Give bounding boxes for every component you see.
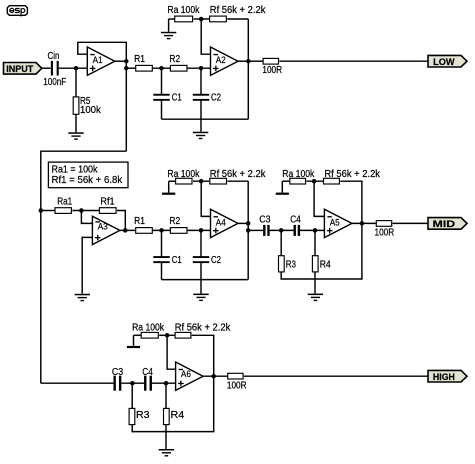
svg-text:Ra1 = 100k: Ra1 = 100k [52, 164, 99, 175]
ESP logo [7, 6, 27, 17]
svg-text:C2: C2 [211, 255, 221, 266]
ground Ra high [127, 346, 140, 348]
node C4 junction mid [313, 228, 318, 233]
wire A1 tap to row2 [41, 151, 127, 383]
wire A4 minus [201, 181, 210, 216]
resistor Rf mid [210, 178, 227, 184]
wire to MID tag [393, 222, 429, 224]
wire A6 output [203, 375, 227, 377]
resistor R2 mid [170, 228, 187, 234]
wire Ra-Rf mid [193, 180, 209, 182]
wire R4 top mid [314, 230, 316, 255]
wire A2 output [238, 60, 248, 62]
wire C2 top mid [200, 230, 202, 256]
ground C2 [193, 132, 208, 134]
wire Ra high left [134, 334, 141, 336]
wire C4 to A6 [152, 382, 176, 384]
note box [48, 162, 128, 188]
svg-text:R1: R1 [134, 54, 145, 65]
wire A3 output [120, 229, 135, 231]
wire A3 plus [82, 237, 92, 293]
capacitor Cin [51, 61, 53, 76]
op-amp A4 [211, 209, 239, 237]
svg-text:R1: R1 [134, 216, 145, 227]
node Ra-Rf mid [199, 179, 204, 184]
op-amp A2 [211, 47, 239, 75]
node A4 out [246, 221, 251, 226]
resistor R4 high [164, 408, 170, 424]
wire C3-C4 high [121, 382, 144, 384]
wire feedback vertical mid [247, 181, 249, 279]
capacitor C2 [193, 94, 209, 96]
capacitor C2 mid [193, 256, 209, 258]
svg-text:A6: A6 [181, 369, 191, 380]
resistor 100R high [228, 373, 243, 379]
wire C1 top mid [161, 230, 163, 256]
wire R3 rail mid [281, 223, 362, 279]
wire C2 to ground [200, 100, 202, 131]
wire Ra to Rf [194, 18, 210, 20]
wire Ra2 ground [281, 181, 283, 192]
node A4 tap [246, 228, 251, 233]
ground Ra mid [162, 193, 175, 195]
resistor 100R mid [376, 221, 391, 227]
node C2 tap mid [199, 228, 204, 233]
node input junction [74, 66, 79, 71]
wire Rf2 right [340, 181, 362, 223]
wire Rf1 to A3 out [117, 211, 125, 231]
wire Ra1 to Rf1 [72, 210, 99, 212]
wire A4 output [238, 222, 248, 224]
resistor Ra high [141, 332, 158, 338]
svg-text:100R: 100R [375, 227, 395, 238]
svg-text:R2: R2 [169, 54, 180, 65]
wire A1 output [115, 60, 127, 62]
node A6 out [211, 374, 216, 379]
wire C2 ground mid [200, 263, 202, 294]
resistor R5 [73, 97, 79, 114]
wire A1 out down [125, 61, 127, 151]
HIGH tag [428, 370, 467, 382]
ground R5 [68, 132, 83, 134]
svg-text:HIGH: HIGH [433, 372, 455, 383]
wire A4 out to C3 [248, 229, 263, 231]
wire A2 minus input [201, 19, 210, 54]
wire C4 to A5 [300, 229, 325, 231]
wire R2 to A4 [187, 229, 210, 231]
wire C3-C4 mid [270, 229, 294, 231]
svg-text:Ra1: Ra1 [57, 197, 72, 208]
capacitor C1 mid [153, 256, 169, 258]
node C1 tap [159, 66, 164, 71]
wire A1 feedback [78, 42, 127, 61]
svg-text:A5: A5 [330, 217, 340, 228]
wire Ra2-Rf2 [307, 180, 324, 182]
capacitor C4 mid [294, 225, 296, 236]
svg-text:100R: 100R [262, 65, 282, 76]
node C3 junction high [130, 381, 135, 386]
wire R1-R2 mid [153, 229, 170, 231]
resistor Ra2 mid [290, 178, 306, 184]
svg-text:Ra 100k: Ra 100k [167, 169, 200, 180]
node C3 junction mid [279, 228, 284, 233]
wire C2 top [200, 68, 202, 94]
node A1 out [124, 59, 129, 64]
wire R3 rail high [132, 376, 214, 431]
svg-text:Rf 56k + 2.2k: Rf 56k + 2.2k [324, 169, 381, 180]
svg-text:LOW: LOW [433, 57, 455, 68]
node A5 out [360, 221, 365, 226]
node Ra-Rf junction [199, 17, 204, 22]
svg-text:Ra 100k: Ra 100k [167, 5, 200, 16]
svg-text:R3: R3 [286, 260, 297, 271]
wire Rf right high [192, 335, 214, 376]
resistor R3 high [129, 408, 135, 424]
wire R3 top mid [280, 230, 282, 255]
node A1 tap [124, 66, 129, 71]
resistor Ra mid [176, 178, 192, 184]
svg-text:Ra 100k: Ra 100k [282, 169, 315, 180]
svg-text:C1: C1 [172, 93, 182, 104]
wire out to 100R [248, 60, 262, 62]
svg-text:R3: R3 [136, 410, 150, 421]
wire to Ra1 [41, 210, 55, 212]
node Ra-Rf high [165, 333, 170, 338]
svg-text:C4: C4 [142, 367, 153, 378]
wire input to Cin [42, 67, 51, 69]
wire R4 ground mid [314, 272, 316, 294]
resistor 100R low [263, 58, 278, 64]
wire A5 minus [314, 181, 324, 216]
capacitor C3 high [113, 376, 115, 391]
wire Ra2 left [282, 180, 289, 182]
node A2 out [246, 59, 251, 64]
wire R2 to A2 [187, 67, 210, 69]
ground Ra [161, 32, 176, 34]
node Ra2-Rf2 [312, 179, 317, 184]
LOW tag [428, 55, 467, 67]
svg-text:Rf1 = 56k + 6.8k: Rf1 = 56k + 6.8k [52, 175, 124, 186]
svg-text:R4: R4 [171, 410, 185, 421]
svg-text:C2: C2 [211, 93, 221, 104]
node row2 input [39, 208, 44, 213]
ground Ra2 mid [276, 193, 289, 195]
svg-text:100nF: 100nF [43, 77, 66, 88]
svg-text:C3: C3 [112, 367, 124, 378]
resistor Rf [210, 16, 227, 22]
resistor Rf high [175, 332, 191, 338]
svg-text:Rf 56k + 2.2k: Rf 56k + 2.2k [175, 323, 232, 334]
wire feedback vertical [247, 19, 249, 119]
wire R5 bottom [75, 114, 77, 132]
wire to HIGH tag [244, 375, 428, 377]
wire Ra mid left [169, 180, 176, 182]
wire A5 output [352, 222, 376, 224]
capacitor C1 [153, 94, 169, 96]
wire Ra-Rf high [159, 334, 175, 336]
svg-text:R2: R2 [169, 216, 180, 227]
capacitor C4 high [144, 376, 146, 391]
wire R1 to R2 [153, 67, 170, 69]
svg-text:100k: 100k [80, 105, 102, 116]
svg-text:Rf 56k + 2.2k: Rf 56k + 2.2k [210, 169, 267, 180]
wire row3 input [41, 382, 114, 384]
ground R4 high [159, 449, 174, 451]
resistor R1 mid [136, 228, 153, 234]
wire C1 rail mid [162, 279, 249, 281]
wire Rf to feedback [227, 18, 248, 20]
svg-text:A2: A2 [216, 55, 226, 66]
svg-text:R4: R4 [320, 260, 331, 271]
wire Rf to feedback mid [227, 180, 248, 182]
op-amp A6 [176, 362, 204, 390]
wire C1 rail [162, 118, 249, 120]
wire 100R to LOW [279, 60, 428, 62]
svg-text:C4: C4 [290, 214, 301, 225]
node C1 tap mid [159, 228, 164, 233]
svg-text:INPUT: INPUT [6, 64, 33, 75]
MID tag [428, 218, 467, 230]
resistor Rf1 [99, 208, 116, 214]
op-amp A1 [87, 47, 115, 75]
wire to R1 [126, 67, 135, 69]
node A3 out [123, 228, 128, 233]
svg-text:A4: A4 [216, 217, 227, 228]
node C4 junction high [164, 381, 169, 386]
resistor Ra [175, 16, 193, 22]
svg-text:A1: A1 [93, 55, 103, 66]
wire Ra ground [168, 19, 170, 32]
wire Ra left [169, 18, 175, 20]
wire C1 bottom [161, 100, 163, 119]
ground A3 plus [75, 294, 90, 296]
wire C1 bottom mid [161, 263, 163, 280]
resistor R2 [170, 65, 187, 71]
wire Ra mid ground [168, 181, 170, 192]
svg-text:C1: C1 [172, 255, 182, 266]
svg-text:100R: 100R [227, 380, 247, 391]
wire R5 top [75, 68, 77, 96]
resistor R4 mid [312, 256, 318, 272]
svg-text:C3: C3 [259, 214, 271, 225]
capacitor C3 mid [263, 225, 265, 236]
wire R4 ground high [165, 425, 167, 449]
svg-text:Rf1: Rf1 [100, 197, 115, 208]
resistor R3 mid [279, 256, 285, 272]
svg-text:Cin: Cin [48, 51, 60, 62]
svg-text:A3: A3 [98, 222, 108, 233]
node Ra1-Rf1 [79, 208, 84, 213]
resistor R1 [136, 65, 153, 71]
svg-text:Rf 56k + 2.2k: Rf 56k + 2.2k [210, 5, 267, 16]
wire C1 top [161, 68, 163, 94]
svg-text:Ra 100k: Ra 100k [132, 323, 165, 334]
resistor Rf2 mid [324, 178, 340, 184]
ground C2 mid [193, 294, 208, 296]
ground R4 mid [308, 294, 323, 296]
wire Ra high ground [133, 335, 135, 346]
wire R4 top high [165, 383, 167, 408]
op-amp A5 [324, 209, 352, 237]
INPUT tag [4, 63, 42, 75]
wire R3 top high [131, 383, 133, 408]
wire A3 minus [81, 211, 92, 224]
svg-text:MID: MID [433, 219, 455, 230]
wire A6 minus [167, 335, 176, 369]
resistor Ra1 [55, 208, 71, 214]
node C2 tap [199, 66, 204, 71]
op-amp A3 [92, 216, 120, 244]
wire Cin to A1 [59, 67, 88, 69]
